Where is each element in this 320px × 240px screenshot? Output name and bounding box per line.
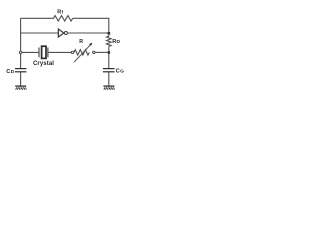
wire right rail to CG xyxy=(108,72,110,86)
wire R to right rail xyxy=(95,51,109,53)
resistor R wiper arrow xyxy=(74,44,91,62)
resistor RD xyxy=(107,36,112,46)
resistor R zigzag xyxy=(74,50,89,55)
op-amp U1 inverter triangle xyxy=(58,29,63,37)
resistor Rf xyxy=(54,16,73,21)
capacitor CD plate top xyxy=(15,68,26,70)
svg-text:Crystal: Crystal xyxy=(33,61,54,67)
capacitor CD plate bottom xyxy=(15,71,26,73)
wire top right xyxy=(73,18,109,33)
wire top xyxy=(21,17,54,19)
terminal circle left of R xyxy=(71,51,73,53)
svg-text:D: D xyxy=(117,39,121,45)
capacitor CG plate top xyxy=(103,68,115,70)
svg-text:D: D xyxy=(11,69,15,75)
wire crystal row left xyxy=(21,51,39,53)
inverter bubble xyxy=(64,32,67,35)
svg-text:G: G xyxy=(120,69,124,75)
wire inverter output xyxy=(68,32,109,34)
node junction bottom right xyxy=(107,51,110,54)
ground left xyxy=(15,86,26,90)
wire to RD xyxy=(108,33,110,36)
node terminal bottom left xyxy=(19,51,21,53)
crystal Y1 plate left xyxy=(38,48,40,58)
svg-text:f: f xyxy=(62,10,64,15)
capacitor CG plate bottom xyxy=(103,71,115,73)
terminal circle right of R xyxy=(93,51,95,53)
crystal Y1 plate right xyxy=(47,48,49,58)
wire left rail upper xyxy=(20,18,22,68)
svg-text:C: C xyxy=(6,69,10,75)
wire crystal to R xyxy=(48,51,71,53)
wire left rail lower xyxy=(20,72,22,86)
svg-text:R: R xyxy=(79,39,83,45)
wire inverter input xyxy=(21,32,59,34)
node junction top right xyxy=(107,32,110,35)
wire below RD xyxy=(108,46,110,68)
ground right xyxy=(103,86,114,90)
crystal Y1 body xyxy=(42,46,46,58)
svg-text:C: C xyxy=(116,68,120,74)
